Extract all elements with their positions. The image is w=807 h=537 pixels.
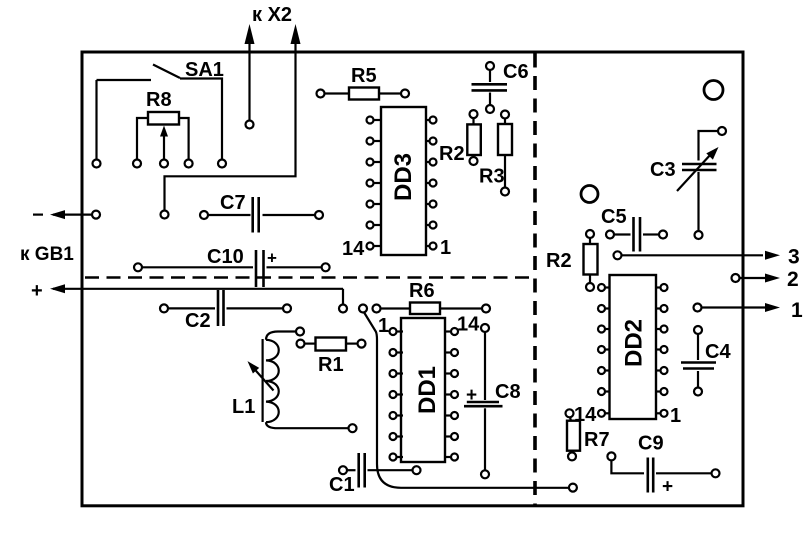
label C3 bbox=[650, 159, 676, 181]
node GB1 wire terminal bbox=[92, 211, 100, 219]
resistor R3 bbox=[498, 111, 512, 196]
label C8 bbox=[495, 381, 521, 403]
wire output 2 bbox=[732, 274, 781, 283]
svg-text:14: 14 bbox=[457, 314, 480, 336]
wire +GB1 arrow lower bbox=[31, 280, 343, 305]
svg-text:C5: C5 bbox=[601, 206, 627, 228]
wire to X2 arrow 1 bbox=[245, 24, 255, 124]
node L1 bottom terminal bbox=[349, 424, 357, 432]
pin row DD3 right bbox=[426, 117, 437, 250]
node return wire end bbox=[569, 484, 577, 492]
resistor R8 (trimmer) bbox=[137, 112, 189, 160]
svg-text:C1: C1 bbox=[329, 474, 355, 496]
pin row DD2 right bbox=[656, 284, 668, 417]
resistor R2 right bbox=[584, 230, 598, 291]
svg-text:DD3: DD3 bbox=[390, 153, 417, 201]
capacitor C1 bbox=[339, 453, 421, 488]
resistor R7 bbox=[566, 409, 581, 460]
label R1 bbox=[318, 354, 344, 376]
capacitor C4 bbox=[681, 326, 716, 396]
svg-text:L1: L1 bbox=[232, 396, 255, 418]
pin label 1 DD2 bbox=[670, 405, 681, 427]
label C1 bbox=[329, 474, 355, 496]
svg-text:DD2: DD2 bbox=[621, 319, 648, 367]
node SA1 right terminal bbox=[218, 160, 226, 168]
label R5 bbox=[351, 65, 377, 87]
svg-text:R1: R1 bbox=[318, 354, 344, 376]
svg-text:C7: C7 bbox=[220, 192, 246, 214]
op IC DD2 bbox=[610, 275, 657, 419]
node below R8 wiper bbox=[161, 211, 169, 219]
node SA1 left terminal bbox=[93, 160, 101, 168]
svg-text:C4: C4 bbox=[705, 341, 731, 363]
label 2 bbox=[787, 268, 799, 291]
svg-text:R7: R7 bbox=[584, 429, 610, 451]
label R3 bbox=[479, 166, 505, 188]
svg-text:1: 1 bbox=[378, 315, 389, 337]
svg-text:к GB1: к GB1 bbox=[20, 244, 74, 265]
svg-text:R8: R8 bbox=[146, 89, 172, 111]
resistor R1 bbox=[297, 338, 366, 351]
label R8 bbox=[146, 89, 172, 111]
label к GB1 bbox=[20, 244, 74, 265]
svg-text:к Х2: к Х2 bbox=[252, 4, 292, 26]
svg-text:R6: R6 bbox=[409, 280, 435, 302]
wire GB1 arrow upper bbox=[33, 210, 92, 219]
svg-text:R2: R2 bbox=[439, 143, 465, 165]
svg-text:C10: C10 bbox=[207, 246, 244, 268]
hole marker middle right bbox=[581, 186, 598, 203]
switch SA1 bbox=[97, 65, 223, 160]
svg-text:+: + bbox=[267, 249, 277, 268]
label C4 bbox=[705, 341, 731, 363]
svg-text:1: 1 bbox=[791, 299, 803, 322]
node junction plus wire bbox=[339, 305, 347, 313]
pin row DD3 left bbox=[367, 117, 382, 250]
svg-text:+: + bbox=[662, 477, 673, 498]
svg-text:R3: R3 bbox=[479, 166, 505, 188]
hole marker top right bbox=[704, 81, 723, 100]
resistor R6 bbox=[373, 303, 491, 315]
pin label 14 DD2 bbox=[574, 404, 597, 426]
node R8 left terminal bbox=[133, 160, 141, 168]
capacitor C10 bbox=[134, 249, 330, 288]
label 1 bbox=[791, 299, 803, 322]
svg-text:C9: C9 bbox=[638, 433, 664, 455]
label 3 bbox=[788, 246, 800, 269]
node R8 right terminal bbox=[185, 160, 193, 168]
dashed divider horizontal bbox=[85, 276, 533, 279]
svg-text:C3: C3 bbox=[650, 159, 676, 181]
svg-text:R2: R2 bbox=[546, 250, 572, 272]
svg-text:C6: C6 bbox=[503, 61, 529, 83]
label к X2 bbox=[252, 4, 292, 26]
dashed divider vertical bbox=[533, 54, 537, 506]
node R8 wiper terminal bbox=[160, 160, 168, 168]
op IC DD1 bbox=[401, 318, 445, 462]
svg-text:2: 2 bbox=[787, 268, 799, 291]
label C5 bbox=[601, 206, 627, 228]
label R6 bbox=[409, 280, 435, 302]
label R2 bbox=[439, 143, 465, 165]
pin row DD1 right bbox=[445, 328, 458, 461]
pin row DD1 left bbox=[390, 328, 404, 461]
svg-text:R5: R5 bbox=[351, 65, 377, 87]
pin label 14 DD1 bbox=[457, 314, 480, 336]
label R2 right bbox=[546, 250, 572, 272]
label C2 bbox=[185, 310, 211, 332]
capacitor C8 bbox=[464, 324, 503, 478]
wire to X2 arrow 2 bbox=[165, 24, 301, 211]
capacitor C9 bbox=[607, 452, 719, 497]
capacitor C6 bbox=[472, 62, 508, 113]
board outline border bbox=[82, 52, 743, 506]
label C10 bbox=[207, 246, 244, 268]
inductor L1 bbox=[248, 332, 349, 429]
svg-text:SA1: SA1 bbox=[185, 59, 224, 81]
node L1 top terminal bbox=[296, 328, 304, 336]
pin label 1 DD1 bbox=[378, 315, 389, 337]
label R7 bbox=[584, 429, 610, 451]
label C6 bbox=[503, 61, 529, 83]
svg-text:14: 14 bbox=[342, 238, 365, 260]
capacitor C3 (trimmer) bbox=[677, 127, 726, 239]
pin row DD2 left bbox=[598, 284, 610, 417]
resistor R2 top bbox=[467, 110, 481, 165]
wire output 1 bbox=[694, 303, 781, 312]
pin label 1 DD3 bbox=[440, 237, 451, 259]
capacitor C5 bbox=[606, 217, 667, 252]
resistor R5 bbox=[317, 88, 410, 100]
label C7 bbox=[220, 192, 246, 214]
capacitor C2 bbox=[160, 290, 291, 326]
svg-text:1: 1 bbox=[440, 237, 451, 259]
svg-text:+: + bbox=[31, 280, 43, 302]
svg-text:3: 3 bbox=[788, 246, 800, 269]
pin label 14 DD3 bbox=[342, 238, 365, 260]
svg-text:C8: C8 bbox=[495, 381, 521, 403]
svg-text:1: 1 bbox=[670, 405, 681, 427]
wire long return via curve bbox=[364, 312, 569, 488]
label C9 bbox=[638, 433, 664, 455]
capacitor C7 bbox=[200, 197, 323, 233]
label L1 bbox=[232, 396, 255, 418]
label SA1 bbox=[185, 59, 224, 81]
node X2 arrow 1 terminal bbox=[246, 121, 254, 129]
svg-text:DD1: DD1 bbox=[414, 366, 441, 414]
wire output 3 bbox=[614, 251, 781, 260]
svg-text:C2: C2 bbox=[185, 310, 211, 332]
op IC DD3 bbox=[381, 107, 426, 255]
node junction diagonal bbox=[359, 305, 367, 313]
